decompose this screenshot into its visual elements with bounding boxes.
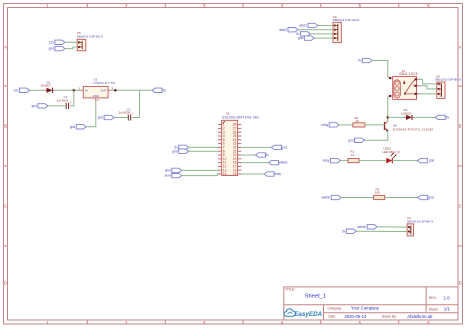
title label [285,288,295,292]
svg-text:switch: switch [321,196,330,200]
wire C2 branch vertical [132,90,139,117]
wire U3 pin1 [377,226,407,228]
svg-text:gnd: gnd [32,104,38,108]
svg-text:atxd1: atxd1 [299,24,307,28]
wire relay NC to U4 pin3 [420,93,437,95]
svg-text:atxd: atxd [165,169,171,173]
port relay (U1 pin15) [264,172,281,176]
svg-text:1K: 1K [351,153,355,157]
svg-text:Date:: Date: [328,315,336,319]
port 5v (U1 pin20) [256,153,270,157]
wire U1 pin15 [241,173,264,175]
port 5v (U1 pin7) [174,145,188,149]
EasyEDA logo [284,309,323,318]
wire relay port to R1 [340,160,348,162]
svg-text:DB100-5.0-4P-GN-S: DB100-5.0-4P-GN-S [333,18,360,22]
wire LED1 to gnd port [392,160,417,162]
connector U6 DB100-5.0-4P-GN-S [333,15,360,43]
port gnd (LED1 cathode) [417,158,434,162]
svg-text:5v: 5v [266,153,270,157]
port gnd (U1 pin22) [271,145,287,149]
svg-text:gnd: gnd [281,146,287,150]
wire D2 to 5v port [414,116,435,118]
wire Q4 emitter to gnd [364,131,388,140]
svg-text:TITLE:: TITLE: [285,288,295,292]
wire U6 pin3 [310,33,333,35]
port arxd (U1 pin14) [165,173,182,177]
svg-text:EasyEDA: EasyEDA [294,311,322,318]
port gnd (Q4 emitter) [348,138,364,142]
wire R2 to Q4 base [365,124,385,126]
svg-text:LED-0602_R: LED-0602_R [382,150,400,154]
resistor R3 10K [374,187,385,199]
port gnd (U6 pin4) [298,36,314,40]
port atxd1 (U6 pin1) [299,23,318,27]
svg-text:gnd: gnd [70,125,76,129]
svg-text:gnd: gnd [298,36,304,40]
svg-text:1/1: 1/1 [444,307,451,312]
svg-text:Company:: Company: [328,306,343,310]
svg-text:relay: relay [321,123,328,127]
svg-text:arxd: arxd [165,174,171,178]
svg-text:D: D [459,281,462,286]
wire U1 pin14 [181,174,218,176]
wire U3 pin2 [356,230,407,232]
wire R3 to gnd port [385,197,418,199]
diode D2 1N4007 [401,108,414,120]
date row [328,314,433,319]
wire R1 to LED1 [359,160,386,162]
svg-text:5v: 5v [342,229,346,233]
junction dot at C1 branch [73,89,76,92]
sheet number label [429,307,451,312]
port gnd (U1 pin8) [172,149,188,153]
wire 5v to relay coil [372,61,388,79]
wire U1 pin22 [241,146,271,148]
company row [328,306,380,311]
svg-text:1uf 450V: 1uf 450V [119,111,131,115]
svg-text:gnd: gnd [348,138,354,142]
relay K1 G5LE-1 DC5 [389,69,420,99]
svg-text:1uf 450V: 1uf 450V [57,98,69,102]
svg-text:IN: IN [85,88,88,92]
wire U6 pin1 [318,25,333,27]
svg-text:B: B [459,124,462,129]
connector U5 DB100-5.0-2P-BU-S [77,31,103,51]
svg-text:relay: relay [274,172,281,176]
wire U6 pin2 [298,29,333,31]
wire 12v to D1 [29,89,44,91]
svg-text:Abdelkrim.ab: Abdelkrim.ab [407,314,433,319]
svg-text:Your Company: Your Company [351,306,380,311]
svg-text:D: D [4,281,7,286]
svg-text:gnd: gnd [172,149,178,153]
svg-text:C: C [459,204,462,209]
svg-text:switch: switch [357,225,366,229]
svg-text:Sheet:: Sheet: [429,307,439,311]
svg-text:1N4007: 1N4007 [41,83,52,87]
diode D1 1N4007 [41,80,55,93]
rev label [429,295,450,300]
svg-text:atxd2: atxd2 [279,28,287,32]
wire relay NO to U4 pin1 [420,79,437,84]
LED LED1 LED-0602_R [382,146,400,163]
svg-text:15: 15 [233,172,237,176]
svg-text:gnd: gnd [429,159,435,163]
port gnd (C1) [32,104,48,108]
port 5v (D2 cathode) [435,115,449,119]
resistor R2 1K [353,116,365,127]
svg-text:Drawn By:: Drawn By: [382,315,397,319]
svg-text:1K: 1K [356,119,360,123]
port switch (U3 pin1) [357,225,377,229]
wire U1 pin18 [241,162,268,164]
svg-text:1N4007: 1N4007 [401,111,412,115]
IC U1 GS1009-26AT1NS-0A2 [218,112,259,177]
svg-text:B: B [4,124,7,129]
wire U5 pin1 [65,41,78,43]
svg-text:5v: 5v [446,116,450,120]
svg-text:gnd: gnd [98,116,104,120]
wire relay port to R2 [339,124,353,126]
svg-text:2N3904S-RTK/PS_C19036: 2N3904S-RTK/PS_C19036 [393,127,434,131]
port gnd (R3) [418,195,434,199]
wire U2 GND to port [86,102,96,127]
port 12v (U5 pin1) [49,40,65,44]
wire U1 pin20 [241,154,255,156]
port gnd (U5 pin2) [49,46,65,50]
junction dot at D2 branch [387,116,390,119]
transistor Q4 2N3904S-RTK/PS_C19036 [385,121,434,132]
wire C1 branch vertical [70,90,74,106]
svg-text:A: A [459,44,462,49]
port switch (R3 input) [321,195,341,199]
port gnd (U2 GND) [70,125,86,129]
wire U1 pin8 [188,150,218,152]
wire U5 pin2 [65,47,78,49]
port switch (U1 pin18) [269,160,288,164]
svg-text:REV:: REV: [429,296,437,300]
svg-text:L7805CDT-TR: L7805CDT-TR [93,81,116,85]
svg-text:DB100-5.0-2P-BU-S: DB100-5.0-2P-BU-S [407,219,433,223]
port 5v (U3 pin2) [342,229,356,233]
wire switch port to R3 [341,197,374,199]
connector U4 DB100-5.0-3P-BU-S [435,74,461,98]
wire C1 to gnd port [48,105,67,107]
svg-text:1.0: 1.0 [444,295,451,300]
svg-text:2020-09-14: 2020-09-14 [344,314,367,319]
svg-text:G5LE-1 DC5: G5LE-1 DC5 [399,72,417,76]
title block grid [284,287,458,320]
port 12v (regulator input) [13,88,29,92]
svg-text:+: + [70,100,72,104]
junction dot at OUT [114,89,117,92]
port atxd2 (U6 pin2) [279,28,298,32]
svg-text:12v: 12v [49,40,55,44]
svg-text:GS1009-26AT1NS-0A2: GS1009-26AT1NS-0A2 [222,116,259,120]
wire D1 to U2 IN [55,89,81,91]
svg-text:DB100-5.0-3P-BU-S: DB100-5.0-3P-BU-S [435,77,461,81]
wire C2 to gnd port [114,117,129,119]
svg-text:DB100-5.0-2P-BU-S: DB100-5.0-2P-BU-S [77,34,103,38]
wire U1 pin7 [188,146,218,148]
svg-text:C: C [4,204,7,209]
port 5v (regulator output) [152,88,166,92]
capacitor C2 1uf 450V [119,107,134,120]
resistor R1 1K [348,150,359,163]
wire U1 pin13 [181,169,218,171]
svg-text:A: A [4,44,7,49]
svg-text:switch: switch [279,161,288,165]
svg-text:5v: 5v [358,59,362,63]
svg-text:10K: 10K [375,190,380,194]
svg-text:+: + [132,112,134,116]
capacitor C1 1uf 450V [57,95,72,109]
svg-text:gnd: gnd [49,47,55,51]
svg-text:Sheet_1: Sheet_1 [305,294,327,300]
wire U2 OUT to 5v [111,89,152,91]
svg-text:OUT: OUT [100,88,106,92]
wire D2 branch [388,116,404,118]
port relay (LED row) [323,158,341,162]
port 5v (relay coil) [358,58,372,62]
svg-text:5v: 5v [163,88,167,92]
svg-text:gnd: gnd [428,196,434,200]
svg-text:12v: 12v [13,88,19,92]
svg-text:relay: relay [323,159,330,163]
port 5v (U6 pin3) [296,32,310,36]
port gnd (C2) [98,115,114,119]
port atxd (U1 pin13) [165,168,182,172]
svg-text:14: 14 [223,172,227,176]
connector U3 DB100-5.0-2P-BU-S [407,216,433,236]
wire U6 pin4 [314,37,333,39]
regulator U2 L7805CDT-TR [78,78,115,102]
svg-text:2: 2 [97,98,99,102]
port relay (R2 input) [321,123,339,127]
wire relay COM to U4 pin2 [420,86,437,89]
sheet name Sheet_1 [305,294,327,300]
wire relay coil- to Q4 collector [387,96,389,121]
